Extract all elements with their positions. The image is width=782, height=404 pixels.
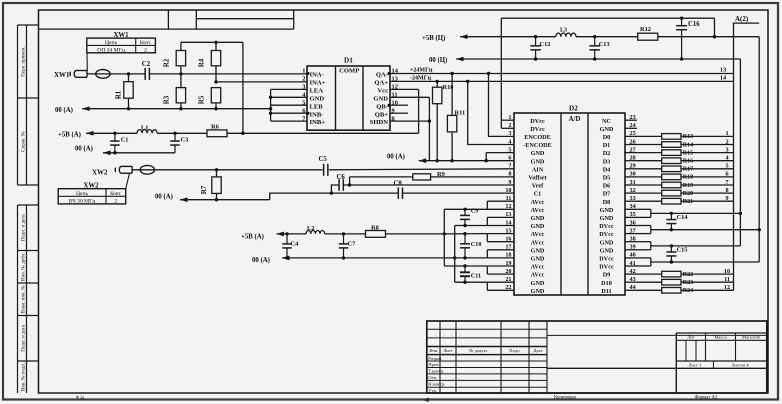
net DVcc vertical to D2 pins 1 2 (501, 17, 716, 129)
svg-text:QB+: QB+ (375, 111, 389, 118)
svg-text:11: 11 (724, 276, 730, 283)
svg-text:Изм: Изм (429, 348, 437, 353)
svg-text:D7: D7 (603, 191, 611, 198)
svg-text:GND: GND (531, 150, 545, 157)
svg-text:C1: C1 (534, 191, 542, 198)
svg-text:Т.контр.: Т.контр. (428, 369, 444, 374)
svg-text:Н.контр.: Н.контр. (428, 382, 445, 387)
svg-text:D1: D1 (344, 56, 353, 64)
svg-text:+24МГц: +24МГц (410, 68, 433, 74)
net +5V (C) digital supply (422, 34, 761, 262)
svg-text:DVcc: DVcc (599, 231, 614, 238)
wire AVcc distribution (444, 209, 487, 266)
svg-text:00 (Ц): 00 (Ц) (429, 57, 447, 64)
net 00 (A) XW2 return (155, 193, 270, 202)
svg-text:XW1: XW1 (54, 71, 70, 79)
wire R4 R5 junction to D1 pin 2 INA+ (214, 80, 307, 83)
net 00 (A) mid rail (387, 153, 488, 163)
svg-text:R1: R1 (116, 90, 123, 99)
svg-text:C15: C15 (677, 246, 688, 253)
svg-text:DVcc: DVcc (599, 256, 614, 263)
svg-text:GND: GND (600, 126, 614, 133)
wire -24MHz to D2 pin 4 /ENCODE (468, 81, 514, 144)
svg-text:R17: R17 (683, 167, 693, 173)
svg-text:00 (А): 00 (А) (387, 153, 405, 160)
svg-text:DVcc: DVcc (530, 118, 545, 125)
capacitor C10 (460, 232, 481, 260)
resistor R7 (200, 170, 221, 202)
resistor R18 (637, 171, 734, 181)
svg-text:2: 2 (302, 76, 305, 83)
svg-text:QB-: QB- (376, 103, 388, 110)
svg-text:GND: GND (531, 215, 545, 222)
svg-text:9: 9 (725, 195, 728, 202)
svg-text:Отв.: Отв. (428, 375, 437, 380)
svg-text:12: 12 (724, 284, 730, 291)
capacitor C15 (666, 246, 687, 262)
svg-text:R18: R18 (683, 175, 693, 181)
svg-text:10: 10 (505, 187, 511, 194)
wire C2 to D1 pin 1 INA- (150, 72, 307, 75)
capacitor C13 (589, 37, 609, 59)
svg-text:XW1: XW1 (113, 32, 129, 39)
resistor R23 (637, 276, 734, 286)
svg-text:R13: R13 (683, 134, 693, 140)
svg-text:6: 6 (725, 171, 728, 178)
svg-text:12: 12 (505, 203, 511, 210)
svg-text:4: 4 (725, 155, 728, 162)
svg-text:C12: C12 (540, 41, 551, 48)
svg-text:C1: C1 (121, 137, 129, 144)
svg-text:GND: GND (531, 247, 545, 254)
svg-text:XW2: XW2 (83, 183, 99, 190)
svg-text:INB-: INB- (310, 111, 324, 118)
svg-text:C7: C7 (348, 241, 357, 248)
svg-text:R20: R20 (683, 191, 693, 197)
svg-text:Конт.: Конт. (110, 192, 121, 197)
svg-text:Инв. № дубл.: Инв. № дубл. (21, 253, 27, 281)
svg-text:GND: GND (531, 158, 545, 165)
svg-text:AVcc: AVcc (531, 239, 545, 246)
svg-text:Листов 4: Листов 4 (731, 363, 749, 368)
svg-text:Лит: Лит (687, 334, 695, 339)
svg-text:00 (А): 00 (А) (75, 146, 93, 153)
wire +5V top rail to R2 R4 (181, 41, 243, 134)
svg-text:C6: C6 (337, 174, 346, 181)
svg-text:C14: C14 (677, 214, 689, 221)
svg-text:C5: C5 (319, 156, 328, 163)
resistor R15 (637, 146, 734, 156)
wire D1 pins 3-7 ground bracket (269, 89, 307, 121)
svg-text:D8: D8 (603, 199, 611, 206)
inductor L1 (137, 124, 157, 133)
svg-text:Пров.: Пров. (428, 362, 439, 367)
svg-text:11: 11 (506, 195, 512, 202)
svg-text:NC: NC (602, 118, 611, 125)
svg-text:DVcc: DVcc (599, 223, 614, 230)
svg-text:Подп.: Подп. (509, 348, 520, 353)
svg-text:Масса: Масса (714, 334, 726, 339)
svg-text:+5В (Ц): +5В (Ц) (422, 35, 445, 42)
svg-text:Инв. № подл.: Инв. № подл. (21, 363, 27, 392)
svg-text:R23: R23 (683, 280, 693, 286)
svg-text:ОП 24 МГц: ОП 24 МГц (97, 48, 125, 54)
svg-text:3: 3 (302, 84, 305, 91)
svg-text:Vref: Vref (532, 183, 544, 190)
svg-text:10: 10 (724, 268, 730, 275)
svg-text:16: 16 (505, 236, 511, 243)
wire D2 pin 5 and 6 ground bracket (486, 153, 514, 161)
svg-text:8: 8 (725, 187, 728, 194)
svg-text:Справ. №: Справ. № (21, 131, 27, 152)
svg-text:R3: R3 (163, 95, 171, 104)
svg-text:C4: C4 (291, 241, 300, 248)
connector table XW1 (87, 32, 156, 71)
svg-text:QA+: QA+ (374, 80, 388, 87)
svg-text:QA-: QA- (376, 72, 388, 79)
capacitor C2 (142, 61, 151, 80)
svg-text:Масштаб: Масштаб (742, 334, 761, 339)
resistor R19 (637, 179, 734, 189)
svg-text:2: 2 (144, 48, 147, 54)
resistor R22 (637, 268, 734, 278)
svg-text:C11: C11 (471, 273, 481, 280)
svg-text:GND: GND (600, 247, 614, 254)
wire D2 pins 38 39 ground pair (637, 242, 740, 250)
svg-text:D6: D6 (603, 183, 611, 190)
resistor R14 (637, 138, 734, 148)
net 00 (A) upper rail (55, 106, 272, 113)
title block (76, 321, 767, 402)
svg-text:13: 13 (505, 211, 511, 218)
svg-text:C8: C8 (394, 180, 403, 187)
svg-text:5: 5 (302, 99, 305, 106)
wire D2 pins 34 35 ground pair (637, 209, 740, 217)
resistor R1 (116, 74, 134, 111)
svg-text:C2: C2 (142, 61, 151, 68)
svg-text:-ENCODE: -ENCODE (523, 142, 552, 149)
svg-text:20: 20 (505, 268, 511, 275)
svg-text:Перв. примен.: Перв. примен. (22, 46, 27, 76)
svg-text:R15: R15 (683, 150, 693, 156)
wire +24MHz to D2 pin 3 ENCODE (489, 74, 515, 137)
capacitor C9 (460, 207, 478, 227)
svg-text:5: 5 (725, 163, 728, 170)
svg-text:ENCODE: ENCODE (524, 134, 550, 141)
svg-text:Копировал: Копировал (554, 395, 577, 400)
wire XW2 to C5 (155, 168, 323, 171)
svg-text:Дата: Дата (533, 348, 542, 353)
svg-text:17: 17 (505, 244, 511, 251)
wire XW1 input (110, 72, 145, 75)
svg-text:INA-: INA- (310, 72, 324, 79)
capacitor C7 (339, 234, 356, 258)
svg-text:14: 14 (720, 75, 727, 82)
capacitor C6 (337, 174, 346, 191)
svg-text:C9: C9 (471, 207, 479, 214)
svg-text:-24МГц: -24МГц (410, 76, 431, 82)
svg-text:AVcc: AVcc (531, 264, 545, 271)
svg-text:SHDN: SHDN (370, 119, 389, 126)
svg-text:D4: D4 (603, 166, 611, 173)
svg-text:+5В (А): +5В (А) (241, 233, 264, 240)
svg-text:GND: GND (600, 239, 614, 246)
svg-text:AVcc: AVcc (531, 199, 545, 206)
svg-text:+5В (А): +5В (А) (58, 132, 81, 139)
resistor R16 (637, 155, 734, 165)
svg-text:GND: GND (531, 288, 545, 295)
svg-text:INA+: INA+ (310, 80, 326, 87)
wire D1 pin 12 Vcc to +5V (A) rail (398, 89, 419, 133)
capacitor C3 (170, 133, 188, 153)
svg-text:3: 3 (725, 146, 728, 153)
svg-text:Подп. и дата: Подп. и дата (22, 324, 27, 351)
svg-text:Voffset: Voffset (528, 175, 547, 182)
inductor L2 (306, 225, 325, 234)
capacitor C14 (666, 213, 688, 229)
svg-text:DVcc: DVcc (599, 264, 614, 271)
svg-text:3: 3 (508, 130, 511, 137)
svg-text:8: 8 (508, 171, 511, 178)
svg-text:Конт.: Конт. (140, 41, 151, 46)
op-amp U1 comparator D1 (302, 56, 408, 130)
capacitor C8 (394, 180, 403, 199)
svg-text:ВЧ 30 МГц: ВЧ 30 МГц (69, 199, 96, 205)
svg-text:22: 22 (505, 284, 511, 291)
svg-text:XW2: XW2 (92, 168, 108, 176)
svg-text:15: 15 (505, 227, 511, 234)
svg-text:R12: R12 (640, 26, 651, 33)
wire D1 pin 8 SHDN to GND line (398, 120, 430, 122)
svg-text:R24: R24 (683, 288, 693, 294)
svg-text:Взам. инв. №: Взам. инв. № (21, 285, 27, 313)
svg-text:INB+: INB+ (310, 119, 326, 126)
net 00 (C) digital ground (429, 57, 742, 246)
a/d converter D2 (505, 105, 637, 295)
svg-text:D1: D1 (603, 142, 611, 149)
resistor R6 (207, 123, 227, 136)
resistor R17 (637, 163, 734, 173)
svg-text:7: 7 (725, 179, 728, 186)
connector XW2 (92, 165, 155, 176)
svg-text:C13: C13 (599, 41, 610, 48)
svg-text:GND: GND (531, 223, 545, 230)
svg-text:Подп. и дата: Подп. и дата (22, 214, 27, 241)
svg-text:R21: R21 (683, 199, 693, 205)
svg-text:R16: R16 (683, 159, 693, 165)
svg-text:2: 2 (725, 138, 728, 145)
svg-text:R5: R5 (198, 95, 206, 104)
svg-text:D11: D11 (601, 288, 611, 295)
resistor R12 (638, 26, 658, 40)
svg-text:GND: GND (600, 215, 614, 222)
svg-text:№ докум.: № докум. (469, 348, 488, 353)
svg-text:1: 1 (725, 130, 728, 137)
svg-text:7: 7 (508, 163, 511, 170)
svg-text:LEB: LEB (310, 103, 324, 110)
svg-text:Утв.: Утв. (428, 388, 437, 393)
svg-text:19: 19 (505, 260, 511, 267)
wire D1 pin 11 GND down to 00 (A) rail (398, 97, 432, 160)
svg-text:R7: R7 (200, 185, 208, 194)
svg-text:С16: С16 (688, 21, 700, 28)
capacitor C4 (282, 234, 299, 258)
wire GND distribution (455, 226, 488, 283)
svg-text:00 (А): 00 (А) (252, 257, 270, 264)
svg-text:D10: D10 (601, 280, 612, 287)
wire C6 to D2 pin 9 Vref (343, 183, 514, 186)
svg-text:Формат А3: Формат А3 (695, 395, 718, 400)
svg-text:GND: GND (373, 95, 388, 102)
net -24MHz wire D1 pin13 to bus line 14 (398, 75, 734, 84)
resistor R21 (637, 195, 734, 205)
svg-text:R22: R22 (683, 272, 693, 278)
svg-text:21: 21 (505, 276, 511, 283)
svg-text:Лист: Лист (443, 348, 453, 353)
resistor R20 (637, 187, 734, 197)
svg-text:Ф 2а: Ф 2а (76, 395, 85, 400)
resistor R10 (433, 81, 454, 162)
svg-text:D5: D5 (603, 175, 611, 182)
svg-text:AVcc: AVcc (531, 272, 545, 279)
svg-text:А(2): А(2) (735, 15, 749, 23)
svg-text:C3: C3 (181, 137, 189, 144)
svg-text:A/D: A/D (569, 116, 581, 123)
svg-text:D9: D9 (603, 272, 611, 279)
capacitor C12 (530, 37, 550, 59)
svg-text:D2: D2 (603, 150, 611, 157)
resistor R13 (637, 130, 734, 140)
resistor R24 (637, 284, 734, 294)
svg-text:COMP: COMP (339, 68, 359, 75)
capacitor C11 (460, 264, 481, 284)
capacitor C5 (319, 156, 328, 176)
net 00 (A) lower return (252, 256, 456, 264)
inductor L3 (556, 27, 576, 36)
wire ground to C6 C8 (270, 185, 514, 200)
resistor R3 (163, 74, 186, 111)
svg-text:GND: GND (531, 256, 545, 263)
svg-text:AVcc: AVcc (531, 231, 545, 238)
svg-text:1: 1 (302, 68, 305, 75)
svg-text:D2: D2 (569, 105, 578, 113)
svg-text:D3: D3 (603, 158, 611, 165)
resistor R8 (366, 225, 386, 238)
svg-text:R19: R19 (683, 183, 693, 189)
svg-text:Vcc: Vcc (377, 88, 388, 95)
svg-text:D0: D0 (603, 134, 611, 141)
net +5V (A) upper with filter (58, 131, 419, 139)
svg-text:R2: R2 (163, 58, 171, 67)
svg-text:Цепь: Цепь (76, 191, 89, 197)
net +24MHz wire D1 pin14 to bus line 13 (398, 67, 734, 76)
svg-text:LEA: LEA (310, 88, 324, 95)
capacitor C16 (676, 18, 700, 61)
svg-text:GND: GND (531, 280, 545, 287)
svg-text:00 (А): 00 (А) (155, 193, 173, 200)
svg-text:00 (А): 00 (А) (55, 107, 73, 114)
svg-text:R14: R14 (683, 142, 693, 148)
resistor R9 and wire to D2 pin 8 Voffset (350, 171, 514, 185)
svg-text:Разраб.: Разраб. (428, 356, 442, 361)
capacitor C1 (110, 133, 128, 153)
svg-text:C10: C10 (471, 241, 482, 248)
svg-text:R4: R4 (198, 58, 206, 67)
svg-text:GND: GND (600, 207, 614, 214)
svg-text:4: 4 (508, 138, 511, 145)
connector XW1 (54, 70, 110, 80)
svg-text:14: 14 (505, 219, 511, 226)
svg-text:AIN: AIN (532, 166, 544, 173)
svg-text:13: 13 (720, 67, 726, 74)
net +5V (A) lower with filter (241, 232, 446, 241)
wire C5 to D2 pin 7 AIN (329, 169, 514, 170)
wire D2 pin pair brackets left (487, 201, 514, 290)
resistor R4 (198, 42, 221, 82)
svg-text:2: 2 (114, 199, 117, 205)
svg-text:Цепь: Цепь (105, 40, 118, 46)
net 00 (A) filter return wire (75, 146, 175, 156)
svg-text:DVcc: DVcc (530, 126, 545, 133)
resistor R2 (163, 42, 186, 74)
svg-text:AVcc: AVcc (531, 207, 545, 214)
svg-text:Лист 1: Лист 1 (688, 363, 702, 368)
resistor R5 (198, 88, 221, 111)
wire D2 pins 36 37 DVcc pair (637, 226, 759, 234)
wire D2 pins 40 41 DVcc pair (637, 258, 759, 266)
svg-text:GND: GND (310, 95, 325, 102)
resistor R11 (447, 74, 465, 163)
svg-text:18: 18 (505, 252, 511, 259)
sheet link A(2) group bus (733, 15, 759, 290)
svg-text:9: 9 (508, 179, 511, 186)
connector table XW2 (58, 173, 129, 204)
